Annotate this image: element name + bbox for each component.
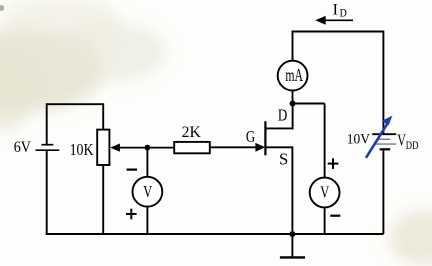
wire mA riser — [292, 31, 294, 61]
wire drain node to voltmeter branch — [293, 103, 325, 105]
label minus (V1) — [127, 169, 137, 171]
wire left vertical top — [46, 103, 48, 144]
variable source arrow (blue) — [366, 116, 392, 158]
battery 6V plate long — [36, 149, 60, 151]
svg-text:DD: DD — [406, 138, 419, 152]
wire top-left loop — [47, 103, 103, 105]
node ID arrow — [315, 16, 353, 25]
wire voltmeter V1 bottom — [146, 207, 148, 234]
svg-text:mA: mA — [285, 65, 303, 85]
svg-text:2K: 2K — [182, 124, 202, 141]
wire voltmeter V2 top — [324, 104, 326, 178]
svg-text:V: V — [143, 182, 152, 201]
wire R1 to gate — [210, 146, 257, 148]
wire voltmeter V1 top — [146, 148, 148, 178]
potentiometer RP 10K body — [97, 130, 109, 165]
node drain junction dot — [290, 101, 296, 107]
node gate junction dot — [145, 145, 151, 151]
wire left vertical bottom — [46, 150, 48, 235]
battery VDD plate long mid — [374, 143, 396, 145]
battery VDD plate long top — [372, 133, 396, 135]
ground — [280, 234, 305, 257]
battery 6V plate short — [41, 144, 53, 146]
svg-text:10K: 10K — [70, 140, 94, 159]
transistor Q1 drain lead — [265, 104, 292, 129]
wire right branch top — [382, 31, 384, 135]
wire mA to drain node — [292, 91, 294, 104]
resistor R1 2K body — [174, 142, 210, 153]
label minus (V2) — [330, 215, 340, 217]
transistor Q1 channel bar — [264, 121, 266, 155]
svg-text:6V: 6V — [14, 139, 32, 156]
voltmeter V1 — [133, 177, 163, 207]
node source junction dot — [289, 231, 295, 237]
wire potentiometer bottom — [102, 165, 104, 235]
svg-text:D: D — [340, 7, 347, 19]
battery VDD plate short bottom — [380, 148, 391, 150]
ammeter mA — [278, 61, 308, 91]
wire right branch bottom — [382, 149, 384, 234]
label I_D — [333, 2, 347, 20]
label VDD — [397, 131, 418, 152]
svg-text:V: V — [320, 183, 329, 202]
potentiometer wiper arrow — [110, 144, 174, 152]
label plus (V2) — [328, 158, 339, 169]
label plus (V1) — [126, 209, 137, 220]
battery VDD plate short mid — [378, 138, 390, 140]
wire bottom rail — [47, 233, 384, 235]
svg-text:10V: 10V — [347, 131, 370, 147]
transistor Q1 gate arrow — [255, 143, 265, 152]
voltmeter V2 — [310, 178, 340, 208]
wire top horizontal (drain supply) — [292, 31, 384, 33]
svg-text:V: V — [397, 131, 406, 150]
svg-text:S: S — [279, 149, 288, 168]
wire potentiometer riser — [102, 103, 104, 129]
wire voltmeter V2 bottom — [324, 207, 326, 234]
transistor Q1 source lead — [265, 147, 292, 234]
svg-text:G: G — [246, 127, 255, 146]
svg-text:D: D — [278, 105, 287, 124]
svg-text:I: I — [333, 2, 338, 19]
